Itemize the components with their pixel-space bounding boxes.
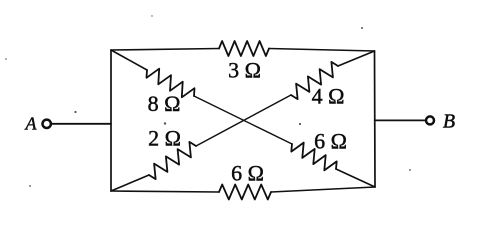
wire A to left edge — [52, 123, 111, 125]
node A terminal circle — [43, 120, 51, 128]
svg-text:8 Ω: 8 Ω — [148, 91, 181, 116]
wire top-left corner to R2 — [111, 50, 147, 70]
node B terminal circle — [426, 116, 434, 124]
scan specks — [5, 15, 411, 187]
svg-text:A: A — [25, 114, 38, 134]
resistor R6 6 ohm (bottom) — [219, 185, 271, 200]
wire right edge to B — [375, 119, 426, 121]
svg-text:B: B — [443, 111, 455, 133]
svg-text:2 Ω: 2 Ω — [148, 126, 181, 151]
svg-text:6 Ω: 6 Ω — [231, 161, 264, 186]
wire bottom edge right segment — [271, 187, 375, 192]
wire R3 to crossing to R4 — [196, 95, 291, 146]
wire R2 to crossing to R5 — [194, 96, 292, 144]
resistor R2 8 ohm (diagonal) — [147, 69, 195, 98]
svg-text:6 Ω: 6 Ω — [314, 129, 347, 154]
wire left vertical edge — [110, 50, 112, 191]
svg-text:4 Ω: 4 Ω — [312, 84, 345, 109]
wire bottom edge left segment — [111, 191, 219, 192]
wire top edge right segment — [269, 49, 375, 52]
resistor R3 2 ohm (diagonal) — [149, 142, 196, 179]
resistor R4 4 ohm (diagonal) — [291, 62, 338, 99]
wire R5 to bottom-right corner — [336, 169, 375, 187]
wire bottom-left corner to R3 — [111, 175, 149, 191]
resistor R5 6 ohm (diagonal right) — [291, 143, 336, 171]
svg-text:3 Ω: 3 Ω — [228, 58, 261, 83]
resistor R1 3 ohm (top) — [219, 41, 269, 56]
wire top edge left segment — [111, 49, 219, 51]
wire right vertical edge — [374, 51, 377, 187]
wire R4 to top-right corner — [338, 51, 375, 66]
